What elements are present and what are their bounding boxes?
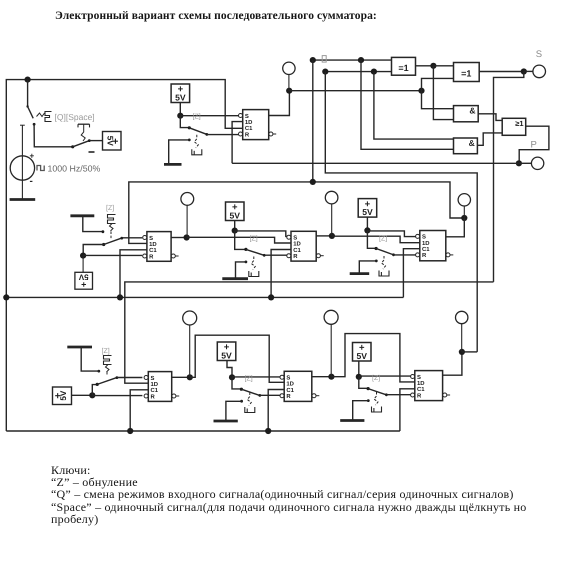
or gate D5	[502, 118, 526, 135]
lamp X3	[325, 191, 338, 236]
switch J8 [Z] FF6	[232, 377, 281, 397]
throw FF4	[359, 260, 377, 273]
battery V8 +5V	[353, 343, 372, 362]
svg-text:1D: 1D	[417, 380, 425, 387]
lamp X2	[181, 193, 194, 238]
svg-text:R: R	[293, 253, 298, 260]
wire D2 out to S	[479, 71, 524, 73]
wire set to U7.S	[359, 375, 412, 377]
wire U2.C1 to clock bus	[120, 250, 147, 298]
svg-text:=1: =1	[461, 69, 471, 79]
node lamp4	[461, 215, 467, 221]
svg-text:1D: 1D	[286, 381, 294, 388]
label S	[536, 49, 542, 60]
wire V8 to node	[358, 361, 360, 377]
xor gate D1	[392, 57, 416, 75]
svg-text:&: &	[469, 138, 475, 148]
flip-flop U5	[144, 372, 179, 402]
throw to ground FF1	[169, 139, 191, 164]
wire V7 to node	[227, 361, 232, 378]
svg-text:5V: 5V	[362, 207, 373, 217]
key symbol [Q][Space]	[37, 112, 52, 122]
svg-text:C1: C1	[422, 246, 430, 253]
switch J9 [Z] FF7	[359, 377, 412, 396]
node lamp6	[328, 374, 334, 380]
svg-text:[Z]: [Z]	[379, 234, 387, 242]
flip-flop U4	[416, 231, 454, 261]
svg-text:5V: 5V	[356, 351, 367, 361]
label [Z] key6	[245, 375, 253, 383]
svg-text:R: R	[422, 252, 427, 259]
wire D3 out to OR	[478, 114, 502, 121]
throw FF6	[226, 400, 243, 420]
battery V1 5V rotated	[103, 132, 122, 151]
key symbol key3	[249, 257, 259, 277]
battery V5 +5V	[358, 199, 377, 218]
throw FF5	[81, 348, 100, 373]
flip-flop U6	[280, 371, 319, 401]
node S	[521, 68, 527, 74]
svg-text:[Q][Space]: [Q][Space]	[55, 112, 95, 122]
key symbol key2	[108, 215, 116, 240]
svg-text:1D: 1D	[245, 119, 253, 126]
wire U2 Q out	[171, 237, 187, 239]
svg-text:5V: 5V	[59, 390, 68, 401]
svg-text:[Z]: [Z]	[245, 375, 253, 383]
svg-text:C1: C1	[417, 386, 425, 393]
svg-text:5V: 5V	[221, 350, 232, 360]
key symbol key4	[379, 256, 389, 276]
node FF5 R	[89, 392, 95, 398]
and gate D3	[454, 106, 479, 122]
node FF1 set	[177, 113, 183, 119]
svg-text:[Z]: [Z]	[250, 234, 258, 242]
ground FF3	[222, 277, 248, 280]
wire U6 Q to U7.1D	[331, 334, 414, 382]
wire pole FF2	[83, 245, 104, 256]
lamp P output	[531, 157, 543, 169]
switch J5 [Z] FF3	[235, 231, 289, 257]
wire U7.C1 to bus	[400, 389, 415, 431]
wire U4 Q out	[0, 0, 1, 1]
wire node to U5.R	[92, 395, 142, 397]
node carry split	[418, 88, 424, 94]
svg-text:+: +	[30, 152, 35, 161]
svg-text:[Z]: [Z]	[372, 374, 380, 382]
lamp X7	[456, 311, 468, 352]
wire D4 out to OR	[477, 133, 502, 145]
node bus2 U3	[268, 294, 274, 300]
wire carry to XOR2 and AND1	[422, 78, 454, 108]
wire V5 to node	[366, 217, 368, 230]
svg-text:S: S	[422, 234, 426, 241]
flip-flop U1	[239, 110, 277, 140]
wire lamp7 to line2	[462, 351, 477, 353]
switch J2 Space pole	[71, 139, 102, 148]
svg-text:&: &	[469, 106, 475, 116]
wire P feedback rail	[232, 162, 519, 164]
node P	[516, 160, 522, 166]
wire set to FF1.S	[180, 115, 240, 117]
label [Q][Space]	[55, 112, 95, 122]
battery V6 5V rotated	[53, 387, 72, 405]
label [Z] key1	[193, 112, 201, 120]
node FF7 set	[356, 374, 362, 380]
wire V4 to node	[234, 221, 236, 231]
wire A to AND2 upper	[374, 72, 454, 140]
node bus3 U6	[265, 428, 271, 434]
wire D5 out to P	[519, 126, 549, 163]
wire bottom bus	[6, 430, 400, 432]
key symbol Space push	[78, 124, 90, 141]
svg-text:+: +	[81, 280, 86, 290]
node FF4 set	[364, 227, 370, 233]
ground FF6	[214, 420, 238, 423]
svg-text:R: R	[286, 393, 291, 400]
node D1 out	[430, 63, 436, 69]
wire riser A to line2	[325, 72, 477, 352]
svg-text:+: +	[113, 136, 119, 147]
wire U3 Q out	[316, 235, 332, 237]
wire D1 to AND1 lower	[433, 66, 453, 120]
ground FF2	[70, 216, 104, 233]
wire net A top	[325, 71, 391, 73]
svg-text:1D: 1D	[293, 241, 301, 248]
node A2	[371, 69, 377, 75]
battery V2 +5V	[171, 84, 190, 103]
lamp X1	[283, 62, 295, 91]
wire S feedback	[494, 72, 524, 282]
node lamp3	[329, 233, 335, 239]
node FF2 R	[80, 253, 86, 259]
wire to U4 Q	[446, 218, 465, 237]
switch J7 [Z] FF5	[92, 376, 142, 395]
battery V7 +5V	[217, 342, 236, 361]
wire carry rail	[289, 90, 421, 92]
node lamp7	[459, 349, 465, 355]
wire set to U6.S	[232, 376, 281, 378]
flip-flop U7	[411, 371, 451, 401]
wire P feedback to U1.1D	[232, 122, 243, 164]
svg-text:1D: 1D	[151, 381, 159, 388]
wire S to lamp	[524, 70, 533, 72]
svg-text:[Z]: [Z]	[106, 204, 114, 212]
svg-text:S: S	[245, 113, 249, 120]
svg-text:S: S	[417, 374, 421, 381]
node carry	[286, 88, 292, 94]
node bus2 left	[3, 294, 9, 300]
wire P to lamp	[519, 162, 532, 164]
key symbol key1	[192, 135, 202, 155]
svg-text:S: S	[293, 235, 297, 242]
switch J4 [Z] FF2	[102, 237, 142, 246]
xor gate D2	[454, 63, 480, 82]
wire V6 to node	[72, 394, 93, 396]
svg-text:5V: 5V	[229, 210, 240, 220]
label [Z] key5	[102, 347, 110, 355]
svg-text:≥1: ≥1	[515, 119, 523, 128]
wire U1 Q out	[269, 91, 290, 116]
node lamp2	[184, 234, 190, 240]
svg-text:S: S	[151, 375, 155, 382]
node bus3 U5	[127, 428, 133, 434]
wire U5 Q to U6.1D	[190, 335, 284, 382]
wire S feedback bus1	[125, 282, 494, 383]
svg-text:5V: 5V	[175, 92, 186, 102]
lamp S output	[533, 65, 546, 78]
node A1	[322, 69, 328, 75]
node B1	[310, 57, 316, 63]
svg-text:R: R	[149, 253, 154, 260]
wire U5.C1 to bus	[130, 390, 148, 431]
wire B to AND2 lower	[361, 60, 454, 149]
svg-text:C1: C1	[245, 125, 253, 132]
node bus2 U2	[117, 294, 123, 300]
wire U6.C1 to bus	[268, 390, 284, 432]
svg-text:S: S	[536, 49, 542, 60]
svg-text:R: R	[151, 393, 156, 400]
flip-flop U3	[287, 231, 324, 261]
svg-text:[Z]: [Z]	[193, 112, 201, 120]
key symbol key7	[372, 392, 382, 412]
label B	[322, 56, 326, 63]
svg-text:S: S	[149, 235, 153, 242]
wire U3 Q to U4.1D	[332, 236, 420, 243]
node line1	[310, 179, 316, 185]
wire line1 B register loop	[129, 182, 465, 244]
svg-text:-: -	[30, 176, 33, 187]
switch J1 [Q][Space] pole	[26, 80, 72, 147]
label [Z] key2	[106, 204, 114, 212]
throw FF3	[236, 261, 248, 278]
node B2	[358, 57, 364, 63]
switch J6 [Z] FF4	[367, 230, 417, 256]
open throw tick	[89, 151, 95, 153]
svg-text:=1: =1	[398, 63, 408, 73]
wire U2 Q to U3.1D	[187, 237, 291, 243]
lamp X5	[183, 311, 197, 377]
wire U3.C1 to clock bus	[271, 250, 291, 298]
node FF6 set	[229, 374, 235, 380]
label [Z] key3	[250, 234, 258, 242]
wire set to U3.S	[235, 231, 289, 237]
ground FF4	[350, 272, 370, 275]
wire D1 to XOR2	[433, 65, 453, 67]
svg-text:C1: C1	[149, 247, 157, 254]
throw FF7	[353, 399, 370, 420]
key symbol key6	[245, 393, 255, 413]
key symbol key5	[104, 356, 112, 377]
node FF3 set	[232, 228, 238, 234]
junction top-left	[25, 77, 31, 83]
wire U7 Q out	[443, 352, 462, 375]
label 1000 Hz/50%	[37, 164, 100, 174]
wire U5 Q out	[172, 376, 190, 378]
lamp X6	[324, 310, 338, 376]
svg-text:C1: C1	[293, 247, 301, 254]
label [Z] key7	[372, 374, 380, 382]
switch J3 [Z] FF1	[180, 116, 240, 136]
battery V4 +5V	[226, 202, 245, 221]
and gate D4	[454, 138, 478, 154]
svg-text:R: R	[417, 392, 422, 399]
ground FF5	[67, 346, 92, 349]
wire set to U4.S	[367, 231, 417, 237]
svg-text:P: P	[531, 140, 537, 151]
svg-text:[Z]: [Z]	[102, 347, 110, 355]
svg-text:1D: 1D	[149, 241, 157, 248]
svg-text:S: S	[286, 375, 290, 382]
wire U6 Q out	[312, 376, 332, 378]
flip-flop U2	[143, 232, 179, 262]
svg-text:C1: C1	[286, 387, 294, 394]
svg-text:C1: C1	[151, 387, 159, 394]
wire D1 out	[416, 65, 434, 67]
svg-text:1D: 1D	[422, 240, 430, 247]
wire clock top rail	[6, 80, 242, 431]
battery V3 5V inverted	[75, 256, 93, 290]
wire U4.C1 to clock bus	[403, 249, 419, 298]
ground clock	[10, 198, 36, 201]
wire node to FF2.R	[83, 254, 142, 256]
svg-text:1000 Hz/50%: 1000 Hz/50%	[48, 164, 101, 174]
ground FF1	[164, 163, 182, 166]
wire clock bus middle	[6, 296, 403, 298]
wire V2 to node	[179, 103, 181, 116]
lamp X4	[458, 194, 470, 218]
wire net B top	[313, 59, 392, 61]
node lamp5	[187, 374, 193, 380]
label [Z] key4	[379, 234, 387, 242]
clock source G1 1000Hz	[10, 125, 34, 199]
label P	[531, 140, 537, 151]
wire riser B to line1	[312, 60, 314, 182]
ground FF7	[340, 419, 364, 422]
svg-text:R: R	[245, 131, 250, 138]
